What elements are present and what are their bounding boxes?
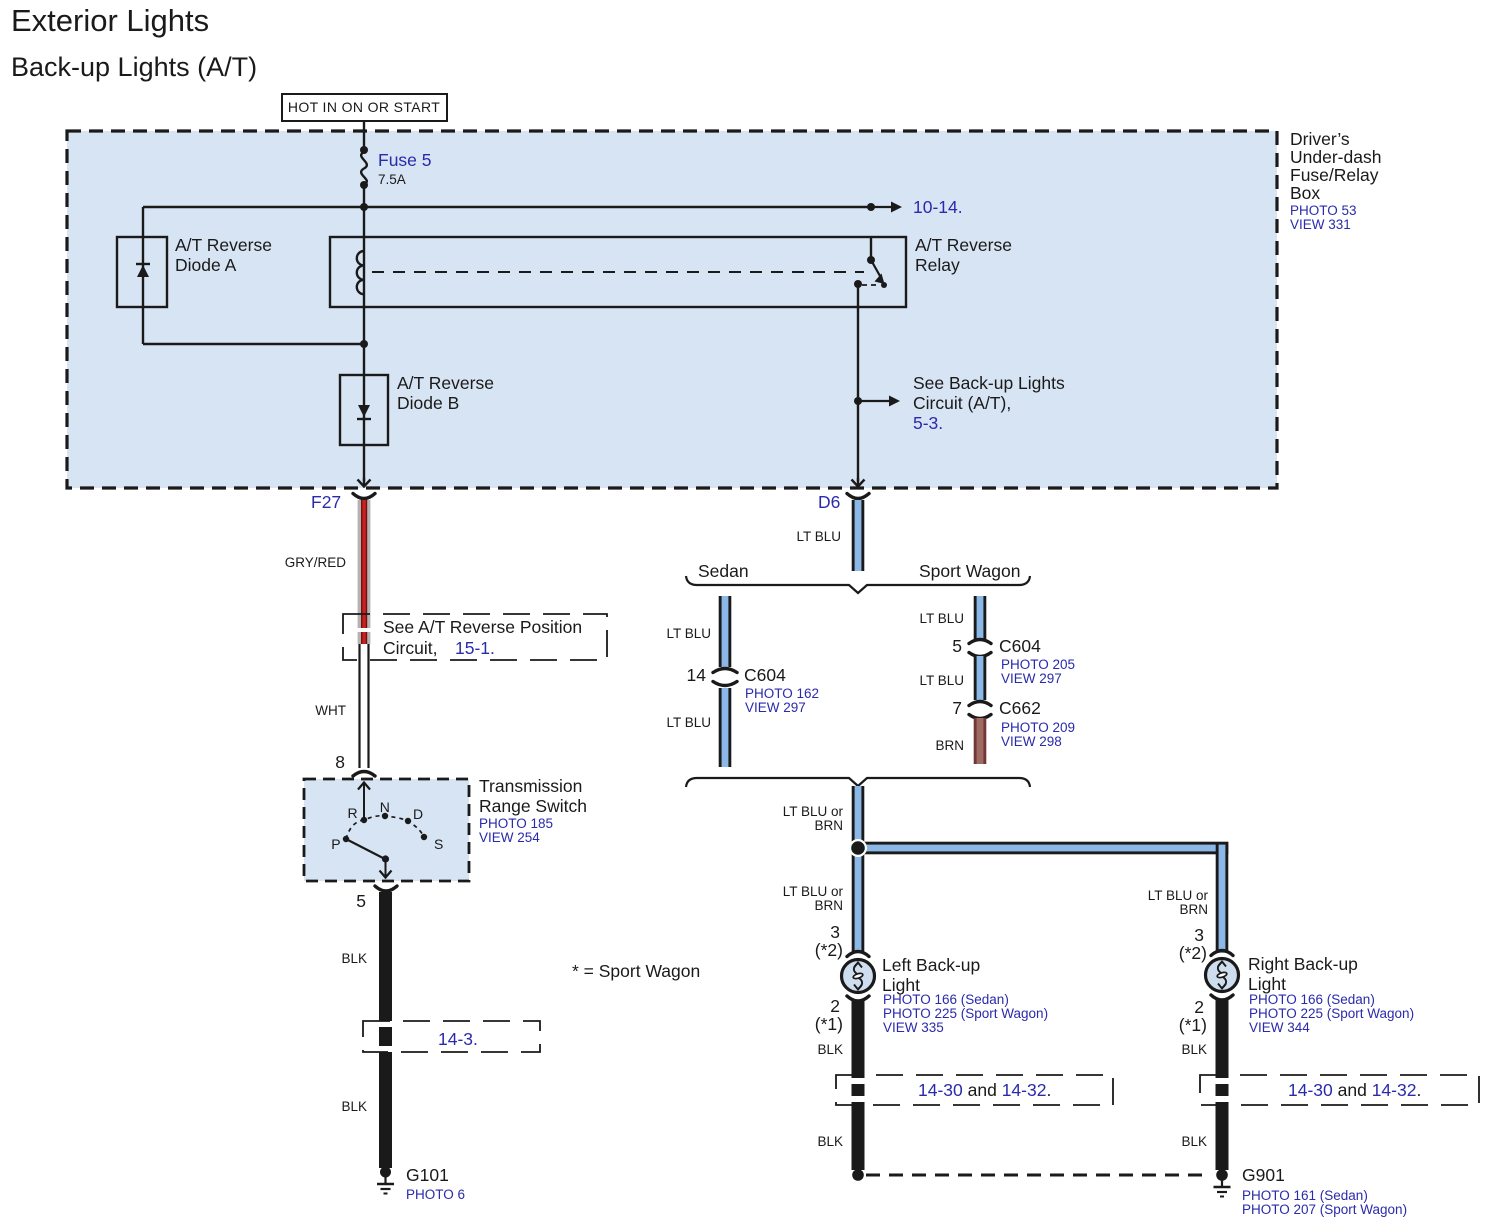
wire LT BLU/BRN combined vertical left: [852, 786, 865, 953]
svg-text:PHOTO 161 (Sedan): PHOTO 161 (Sedan): [1242, 1188, 1368, 1203]
svg-text:GRY/RED: GRY/RED: [285, 555, 347, 570]
wire diode A to center node: [143, 343, 364, 345]
svg-text:PHOTO 185: PHOTO 185: [479, 816, 553, 831]
see A/T reverse position circuit dashed box: [343, 614, 607, 660]
wire BLK left to ground dot: [852, 1102, 865, 1170]
arrow to 10-14: [871, 202, 902, 213]
svg-text:PHOTO 209: PHOTO 209: [1001, 720, 1075, 735]
fuse/relay box (Driver's Under-dash Fuse/Relay Box, dashed light blue): [67, 131, 1277, 488]
svg-text:PHOTO 166 (Sedan): PHOTO 166 (Sedan): [1249, 992, 1375, 1007]
svg-text:VIEW 331: VIEW 331: [1290, 217, 1351, 232]
wire LT BLU from D6: [852, 500, 865, 571]
label G901: [1242, 1165, 1407, 1217]
label C662 wagon: [999, 698, 1075, 749]
relay coil wire: [363, 252, 365, 344]
wire BLK left light: [852, 1000, 865, 1078]
svg-text:VIEW 344: VIEW 344: [1249, 1020, 1310, 1035]
junction see-backup: [854, 397, 862, 405]
svg-text:5: 5: [356, 891, 366, 911]
TRS output arrow pin 5: [380, 859, 392, 878]
svg-text:7.5A: 7.5A: [378, 172, 406, 187]
svg-text:10-14.: 10-14.: [913, 197, 963, 217]
svg-text:BLK: BLK: [1181, 1134, 1207, 1149]
connector bracket D6: [847, 494, 869, 499]
svg-text:3: 3: [830, 922, 840, 942]
wire GRY/RED F27: [358, 500, 371, 628]
svg-text:S: S: [434, 836, 444, 852]
wire BLK right to G901: [1216, 1102, 1229, 1170]
label C604 sedan: [744, 665, 819, 715]
svg-text:F27: F27: [311, 492, 341, 512]
svg-text:7: 7: [952, 698, 962, 718]
svg-text:Sedan: Sedan: [698, 561, 749, 581]
svg-text:Relay: Relay: [915, 255, 960, 275]
label See A/T Reverse Position Circuit, 15-1.: [383, 617, 582, 658]
TRS contact D: [405, 818, 411, 824]
svg-text:PHOTO 6: PHOTO 6: [406, 1187, 465, 1202]
14-30 dashed box right: [1200, 1075, 1479, 1105]
TRS contact N: [382, 813, 388, 819]
svg-text:G901: G901: [1242, 1165, 1285, 1185]
svg-text:A/T Reverse: A/T Reverse: [397, 373, 494, 393]
svg-text:BRN: BRN: [814, 898, 843, 913]
svg-text:LT BLU: LT BLU: [666, 715, 711, 730]
label See Back-up Lights Circuit (A/T), 5-3.: [913, 373, 1065, 433]
connector C604 sedan: [713, 669, 737, 686]
diode B symbol: [357, 405, 371, 419]
ground G101: [377, 1167, 394, 1194]
left back-up light bulb: [842, 960, 875, 993]
TRS letters: [331, 799, 443, 852]
svg-text:BRN: BRN: [1179, 902, 1208, 917]
svg-text:Back-up Lights (A/T): Back-up Lights (A/T): [11, 52, 257, 82]
svg-text:PHOTO 205: PHOTO 205: [1001, 657, 1075, 672]
wire BLK segment in left box: [852, 1084, 865, 1096]
svg-text:Circuit,: Circuit,: [383, 638, 437, 658]
svg-text:R: R: [348, 805, 359, 821]
svg-text:D6: D6: [818, 492, 840, 512]
label LT BLU or BRN upper: [783, 804, 844, 833]
svg-text:Under-dash: Under-dash: [1290, 147, 1381, 167]
svg-text:PHOTO 166 (Sedan): PHOTO 166 (Sedan): [883, 992, 1009, 1007]
label Driver's Under-dash Fuse/Relay Box: [1290, 129, 1381, 232]
svg-text:Range Switch: Range Switch: [479, 796, 587, 816]
wire left branch down to diode A: [142, 207, 144, 344]
svg-text:BLK: BLK: [817, 1042, 843, 1057]
svg-text:BLK: BLK: [1181, 1042, 1207, 1057]
TRS contact R: [361, 817, 367, 823]
label Right Back-up Light: [1248, 954, 1414, 1035]
svg-text:Diode B: Diode B: [397, 393, 459, 413]
svg-text:Driver’s: Driver’s: [1290, 129, 1350, 149]
svg-text:Light: Light: [1248, 974, 1286, 994]
sedan wire LT BLU lower: [719, 688, 732, 767]
fuse F5 vertical wire: [363, 131, 365, 152]
svg-text:(*2): (*2): [815, 940, 843, 960]
connector bracket F27: [353, 494, 375, 499]
sedan wire LT BLU upper: [719, 596, 732, 667]
wire BLK right light: [1216, 1000, 1229, 1078]
svg-text:* = Sport Wagon: * = Sport Wagon: [572, 961, 700, 981]
label LT BLU or BRN lower left: [783, 884, 844, 913]
svg-text:14-30 and 14-32.: 14-30 and 14-32.: [918, 1080, 1051, 1100]
label C604 wagon: [999, 636, 1075, 686]
svg-text:2: 2: [830, 996, 840, 1016]
junction node below coil: [360, 340, 368, 348]
svg-text:G101: G101: [406, 1165, 449, 1185]
wire from HOT box into fuse box: [363, 121, 365, 150]
diode A symbol: [136, 264, 150, 277]
connector bracket left bulb top: [847, 952, 869, 957]
TRS position dots arc: [346, 816, 424, 839]
right back-up light bulb: [1206, 959, 1239, 992]
svg-text:(*1): (*1): [815, 1014, 843, 1034]
svg-text:PHOTO 162: PHOTO 162: [745, 686, 819, 701]
svg-text:VIEW 298: VIEW 298: [1001, 734, 1062, 749]
svg-text:VIEW 297: VIEW 297: [745, 700, 806, 715]
diode B wire: [363, 344, 365, 481]
svg-text:BLK: BLK: [341, 1099, 367, 1114]
svg-text:15-1.: 15-1.: [455, 638, 495, 658]
connector C662 wagon: [969, 702, 991, 719]
svg-text:P: P: [331, 836, 341, 852]
wire WHT: [360, 644, 369, 768]
arrow see back-up lights: [858, 396, 900, 407]
TRS contact P: [343, 836, 349, 842]
relay switch: [854, 237, 887, 288]
svg-text:Diode A: Diode A: [175, 255, 237, 275]
svg-text:VIEW 254: VIEW 254: [479, 830, 540, 845]
dashed ground link wire: [866, 1174, 1207, 1177]
svg-text:Fuse 5: Fuse 5: [378, 150, 432, 170]
wire BLK segment in box: [379, 1027, 392, 1046]
connector bracket right bulb top: [1211, 951, 1233, 956]
svg-text:A/T Reverse: A/T Reverse: [175, 235, 272, 255]
svg-text:HOT IN ON OR START: HOT IN ON OR START: [288, 99, 440, 115]
14-3 dashed box: [363, 1021, 540, 1052]
svg-text:Box: Box: [1290, 183, 1320, 203]
svg-text:(*1): (*1): [1179, 1015, 1207, 1035]
svg-text:5: 5: [952, 636, 962, 656]
wire GRY/RED stub in label box: [358, 632, 371, 644]
svg-text:LT BLU: LT BLU: [919, 611, 964, 626]
svg-text:14: 14: [687, 665, 707, 685]
label Transmission Range Switch: [479, 776, 587, 845]
sport wagon wire LT BLU upper: [974, 596, 987, 640]
svg-text:Circuit (A/T),: Circuit (A/T),: [913, 393, 1011, 413]
svg-text:(*2): (*2): [1179, 943, 1207, 963]
svg-text:LT BLU or: LT BLU or: [1148, 888, 1209, 903]
connector bracket pin 8: [353, 772, 375, 777]
label LT BLU or BRN right: [1148, 888, 1209, 917]
wire BLK from TRS: [379, 892, 392, 1021]
svg-text:Fuse/Relay: Fuse/Relay: [1290, 165, 1379, 185]
svg-text:See Back-up Lights: See Back-up Lights: [913, 373, 1065, 393]
svg-text:Transmission: Transmission: [479, 776, 582, 796]
A/T Reverse Diode B box: [340, 375, 388, 445]
connector bracket pin 5: [375, 886, 397, 891]
svg-text:BRN: BRN: [935, 738, 964, 753]
fuse 5 symbol: [360, 146, 368, 189]
svg-text:BLK: BLK: [817, 1134, 843, 1149]
svg-text:3: 3: [1194, 925, 1204, 945]
ground node dot left: [852, 1169, 864, 1181]
svg-text:See A/T Reverse Position: See A/T Reverse Position: [383, 617, 582, 637]
svg-text:PHOTO 225 (Sport Wagon): PHOTO 225 (Sport Wagon): [883, 1006, 1048, 1021]
connector C604 wagon: [969, 640, 991, 657]
relay output wire down: [857, 284, 859, 481]
sport wagon wire LT BLU mid: [974, 656, 987, 700]
arrowhead F27 exit: [358, 478, 371, 487]
svg-text:LT BLU or: LT BLU or: [783, 804, 844, 819]
svg-text:Exterior Lights: Exterior Lights: [11, 3, 209, 38]
svg-text:C604: C604: [744, 665, 786, 685]
svg-text:PHOTO 53: PHOTO 53: [1290, 203, 1357, 218]
svg-text:BLK: BLK: [341, 951, 367, 966]
label G101 PHOTO 6: [406, 1165, 465, 1202]
A/T Reverse Relay box: [330, 237, 906, 307]
svg-text:PHOTO 225 (Sport Wagon): PHOTO 225 (Sport Wagon): [1249, 1006, 1414, 1021]
junction dot at fuse/bus: [360, 203, 368, 211]
svg-text:LT BLU: LT BLU: [796, 529, 841, 544]
svg-text:LT BLU or: LT BLU or: [783, 884, 844, 899]
svg-text:A/T Reverse: A/T Reverse: [915, 235, 1012, 255]
connector bracket right bulb bottom: [1211, 995, 1233, 1000]
A/T Reverse Diode A box: [117, 237, 167, 307]
junction dot on blue wire: [849, 839, 867, 857]
svg-text:VIEW 297: VIEW 297: [1001, 671, 1062, 686]
right vertical wire LT BLU/BRN: [1216, 842, 1229, 953]
svg-text:VIEW 335: VIEW 335: [883, 1020, 944, 1035]
svg-text:14-30 and 14-32.: 14-30 and 14-32.: [1288, 1080, 1421, 1100]
svg-text:N: N: [380, 799, 391, 815]
TRS pivot dot: [382, 855, 389, 862]
junction dot at relay branch: [867, 203, 875, 211]
svg-text:8: 8: [335, 752, 345, 772]
wire BLK segment in right box: [1216, 1084, 1229, 1096]
svg-text:Sport Wagon: Sport Wagon: [919, 561, 1021, 581]
svg-text:LT BLU: LT BLU: [666, 626, 711, 641]
svg-text:WHT: WHT: [315, 703, 346, 718]
TRS wiper arrow to pin 8: [358, 783, 370, 822]
svg-text:LT BLU: LT BLU: [919, 673, 964, 688]
TRS contact S: [421, 834, 427, 840]
HOT IN ON OR START box: [282, 94, 447, 121]
wire BRN wagon: [974, 718, 987, 764]
arrowhead D6 exit: [852, 478, 865, 487]
wire BLK to G101: [379, 1052, 392, 1168]
merge bracket bottom: [686, 778, 1030, 787]
svg-text:C662: C662: [999, 698, 1041, 718]
TRS wiper blade: [346, 839, 385, 859]
svg-text:D: D: [413, 806, 424, 822]
svg-text:Right Back-up: Right Back-up: [1248, 954, 1358, 974]
svg-text:Left Back-up: Left Back-up: [882, 955, 980, 975]
svg-text:14-3.: 14-3.: [438, 1029, 478, 1049]
relay link dashed line: [372, 271, 864, 273]
horizontal bus wire y=207: [143, 206, 871, 208]
svg-text:BRN: BRN: [814, 818, 843, 833]
svg-text:C604: C604: [999, 636, 1041, 656]
relay coil: [357, 251, 364, 294]
label Left Back-up Light: [882, 955, 1048, 1035]
svg-text:2: 2: [1194, 997, 1204, 1017]
14-30 dashed box left: [836, 1075, 1113, 1105]
svg-text:5-3.: 5-3.: [913, 413, 943, 433]
svg-text:PHOTO 207 (Sport Wagon): PHOTO 207 (Sport Wagon): [1242, 1202, 1407, 1217]
split bracket top: [686, 576, 1030, 593]
ground G901: [1214, 1169, 1231, 1196]
transmission range switch box: [304, 779, 469, 881]
horizontal wire to right light: [852, 842, 1228, 855]
connector bracket left bulb bottom: [847, 996, 869, 1001]
